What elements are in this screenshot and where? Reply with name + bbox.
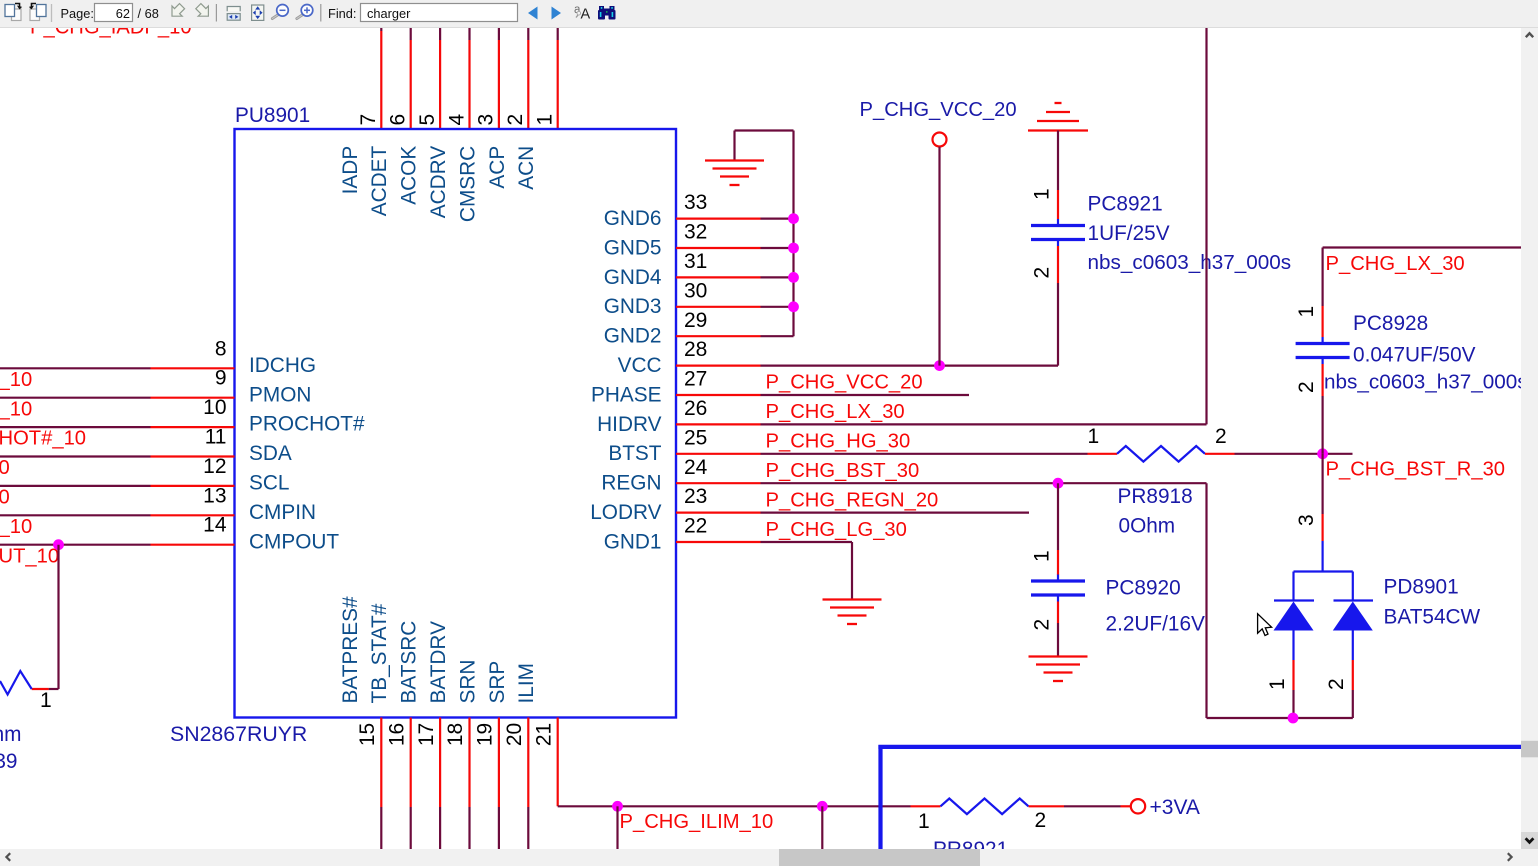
- svg-text:2.2UF/16V: 2.2UF/16V: [1106, 613, 1206, 636]
- svg-text:PR8918: PR8918: [1118, 485, 1193, 508]
- svg-text:4: 4: [445, 114, 468, 126]
- svg-text:IADP: IADP: [339, 146, 362, 195]
- svg-text:+3VA: +3VA: [1150, 796, 1200, 819]
- svg-text:P_CHG_VCC_20: P_CHG_VCC_20: [766, 372, 923, 394]
- svg-text:24: 24: [684, 456, 708, 479]
- svg-text:LODRV: LODRV: [590, 501, 661, 524]
- svg-text:CMSRC: CMSRC: [456, 146, 479, 222]
- svg-text:TB_STAT#: TB_STAT#: [368, 603, 391, 703]
- svg-text:26: 26: [684, 397, 707, 420]
- svg-text:SRN: SRN: [456, 660, 479, 704]
- svg-text:_10: _10: [0, 369, 32, 391]
- svg-text:0: 0: [0, 487, 10, 509]
- svg-text:1: 1: [40, 689, 52, 712]
- svg-text:P_CHG_LX_30: P_CHG_LX_30: [1326, 253, 1465, 275]
- svg-text:P_CHG_VCC_20: P_CHG_VCC_20: [860, 99, 1017, 121]
- svg-text:30: 30: [684, 279, 707, 302]
- svg-text:Page:: Page:: [61, 6, 94, 21]
- svg-text:UT_10: UT_10: [0, 546, 59, 568]
- svg-text:ACP: ACP: [486, 146, 509, 189]
- svg-text:ACN: ACN: [515, 146, 538, 190]
- svg-text:Find:: Find:: [328, 6, 356, 21]
- svg-text:ACDET: ACDET: [368, 146, 391, 217]
- svg-text:2: 2: [1031, 619, 1054, 631]
- svg-text:32: 32: [684, 221, 707, 244]
- svg-text:P_CHG_BST_R_30: P_CHG_BST_R_30: [1326, 459, 1506, 481]
- svg-text:GND3: GND3: [604, 295, 662, 318]
- svg-text:GND5: GND5: [604, 236, 662, 259]
- svg-text:0.047UF/50V: 0.047UF/50V: [1353, 344, 1476, 367]
- svg-text:/ 68: / 68: [138, 6, 159, 21]
- svg-text:0: 0: [0, 457, 10, 479]
- svg-text:HIDRV: HIDRV: [597, 413, 661, 436]
- svg-text:22: 22: [684, 515, 707, 538]
- svg-text:13: 13: [203, 484, 226, 507]
- svg-text:GND1: GND1: [604, 530, 662, 553]
- svg-text:1: 1: [918, 810, 930, 833]
- svg-text:SDA: SDA: [249, 442, 292, 465]
- svg-text:14: 14: [203, 514, 227, 537]
- svg-text:ACDRV: ACDRV: [427, 146, 450, 219]
- svg-text:PROCHOT#: PROCHOT#: [249, 413, 365, 436]
- svg-text:BATDRV: BATDRV: [427, 621, 450, 704]
- svg-text:15: 15: [356, 723, 379, 746]
- svg-text:PD8901: PD8901: [1384, 576, 1459, 599]
- svg-text:BATSRC: BATSRC: [398, 621, 421, 704]
- svg-text:2: 2: [504, 114, 527, 126]
- svg-text:1: 1: [1031, 550, 1054, 562]
- svg-text:GND4: GND4: [604, 266, 662, 289]
- svg-text:P_CHG_LG_30: P_CHG_LG_30: [766, 519, 907, 541]
- svg-text:8: 8: [215, 337, 227, 360]
- svg-text:BTST: BTST: [608, 442, 661, 465]
- svg-text:11: 11: [205, 426, 227, 449]
- svg-text:2: 2: [1215, 425, 1227, 448]
- svg-text:nbs_c0603_h37_000s: nbs_c0603_h37_000s: [1324, 371, 1528, 394]
- svg-text:SRP: SRP: [486, 661, 509, 704]
- svg-text:10: 10: [203, 396, 226, 419]
- svg-text:25: 25: [684, 426, 707, 449]
- svg-text:3: 3: [475, 114, 498, 126]
- svg-text:PC8928: PC8928: [1353, 312, 1428, 335]
- svg-text:2: 2: [1035, 809, 1047, 832]
- svg-text:17: 17: [415, 723, 438, 746]
- svg-text:1: 1: [1266, 678, 1289, 690]
- svg-text:7: 7: [357, 114, 380, 126]
- svg-text:16: 16: [385, 723, 408, 746]
- svg-text:62: 62: [116, 6, 130, 21]
- svg-text:PC8920: PC8920: [1106, 577, 1181, 600]
- svg-text:_10: _10: [0, 516, 32, 538]
- svg-text:0Ohm: 0Ohm: [0, 723, 22, 746]
- svg-text:18: 18: [444, 723, 467, 746]
- svg-text:PHASE: PHASE: [591, 383, 662, 406]
- svg-text:23: 23: [684, 485, 707, 508]
- svg-text:2: 2: [1325, 678, 1348, 690]
- svg-text:12: 12: [203, 455, 226, 478]
- svg-text:CMPOUT: CMPOUT: [249, 530, 339, 553]
- svg-text:REGN: REGN: [601, 472, 661, 495]
- svg-text:VCC: VCC: [618, 354, 662, 377]
- svg-text:3: 3: [1295, 514, 1318, 526]
- svg-text:0Ohm: 0Ohm: [1119, 515, 1176, 538]
- svg-text:ILIM: ILIM: [515, 663, 538, 703]
- svg-text:IDCHG: IDCHG: [249, 354, 316, 377]
- svg-text:2: 2: [1295, 381, 1318, 393]
- svg-text:GND6: GND6: [604, 207, 662, 230]
- svg-text:SCL: SCL: [249, 472, 289, 495]
- svg-text:P_CHG_ILIM_10: P_CHG_ILIM_10: [620, 811, 774, 833]
- svg-text:ACOK: ACOK: [398, 146, 421, 205]
- svg-text:27: 27: [684, 368, 707, 391]
- svg-text:BAT54CW: BAT54CW: [1384, 606, 1481, 629]
- svg-text:charger: charger: [367, 6, 411, 21]
- svg-text:SN2867RUYR: SN2867RUYR: [170, 722, 307, 746]
- svg-text:P_CHG_HG_30: P_CHG_HG_30: [766, 430, 911, 452]
- svg-text:1: 1: [1088, 425, 1100, 448]
- svg-text:PR8939: PR8939: [0, 750, 18, 773]
- svg-text:1: 1: [1031, 188, 1054, 200]
- svg-text:20: 20: [503, 723, 526, 746]
- svg-text:29: 29: [684, 309, 707, 332]
- svg-text:28: 28: [684, 338, 707, 361]
- svg-text:P_CHG_BST_30: P_CHG_BST_30: [766, 460, 920, 482]
- svg-text:P_CHG_LX_30: P_CHG_LX_30: [766, 401, 905, 423]
- svg-text:PMON: PMON: [249, 383, 311, 406]
- svg-text:1: 1: [534, 114, 557, 126]
- svg-text:BATPRES#: BATPRES#: [339, 596, 362, 704]
- svg-text:PC8921: PC8921: [1088, 193, 1163, 216]
- svg-text:21: 21: [532, 723, 555, 746]
- svg-text:_10: _10: [0, 398, 32, 420]
- svg-text:19: 19: [474, 723, 497, 746]
- svg-text:9: 9: [215, 367, 227, 390]
- svg-text:6: 6: [387, 114, 410, 126]
- svg-text:PU8901: PU8901: [235, 104, 310, 127]
- svg-text:GND2: GND2: [604, 325, 662, 348]
- svg-text:1: 1: [1295, 306, 1318, 318]
- svg-text:nbs_c0603_h37_000s: nbs_c0603_h37_000s: [1088, 251, 1292, 274]
- svg-text:CMPIN: CMPIN: [249, 501, 316, 524]
- svg-text:1UF/25V: 1UF/25V: [1088, 222, 1170, 245]
- svg-text:33: 33: [684, 191, 707, 214]
- svg-text:5: 5: [416, 114, 439, 126]
- svg-text:31: 31: [684, 250, 707, 273]
- svg-text:HOT#_10: HOT#_10: [0, 428, 86, 450]
- svg-text:2: 2: [1031, 267, 1054, 279]
- svg-text:P_CHG_REGN_20: P_CHG_REGN_20: [766, 489, 939, 511]
- svg-text:A: A: [581, 7, 591, 23]
